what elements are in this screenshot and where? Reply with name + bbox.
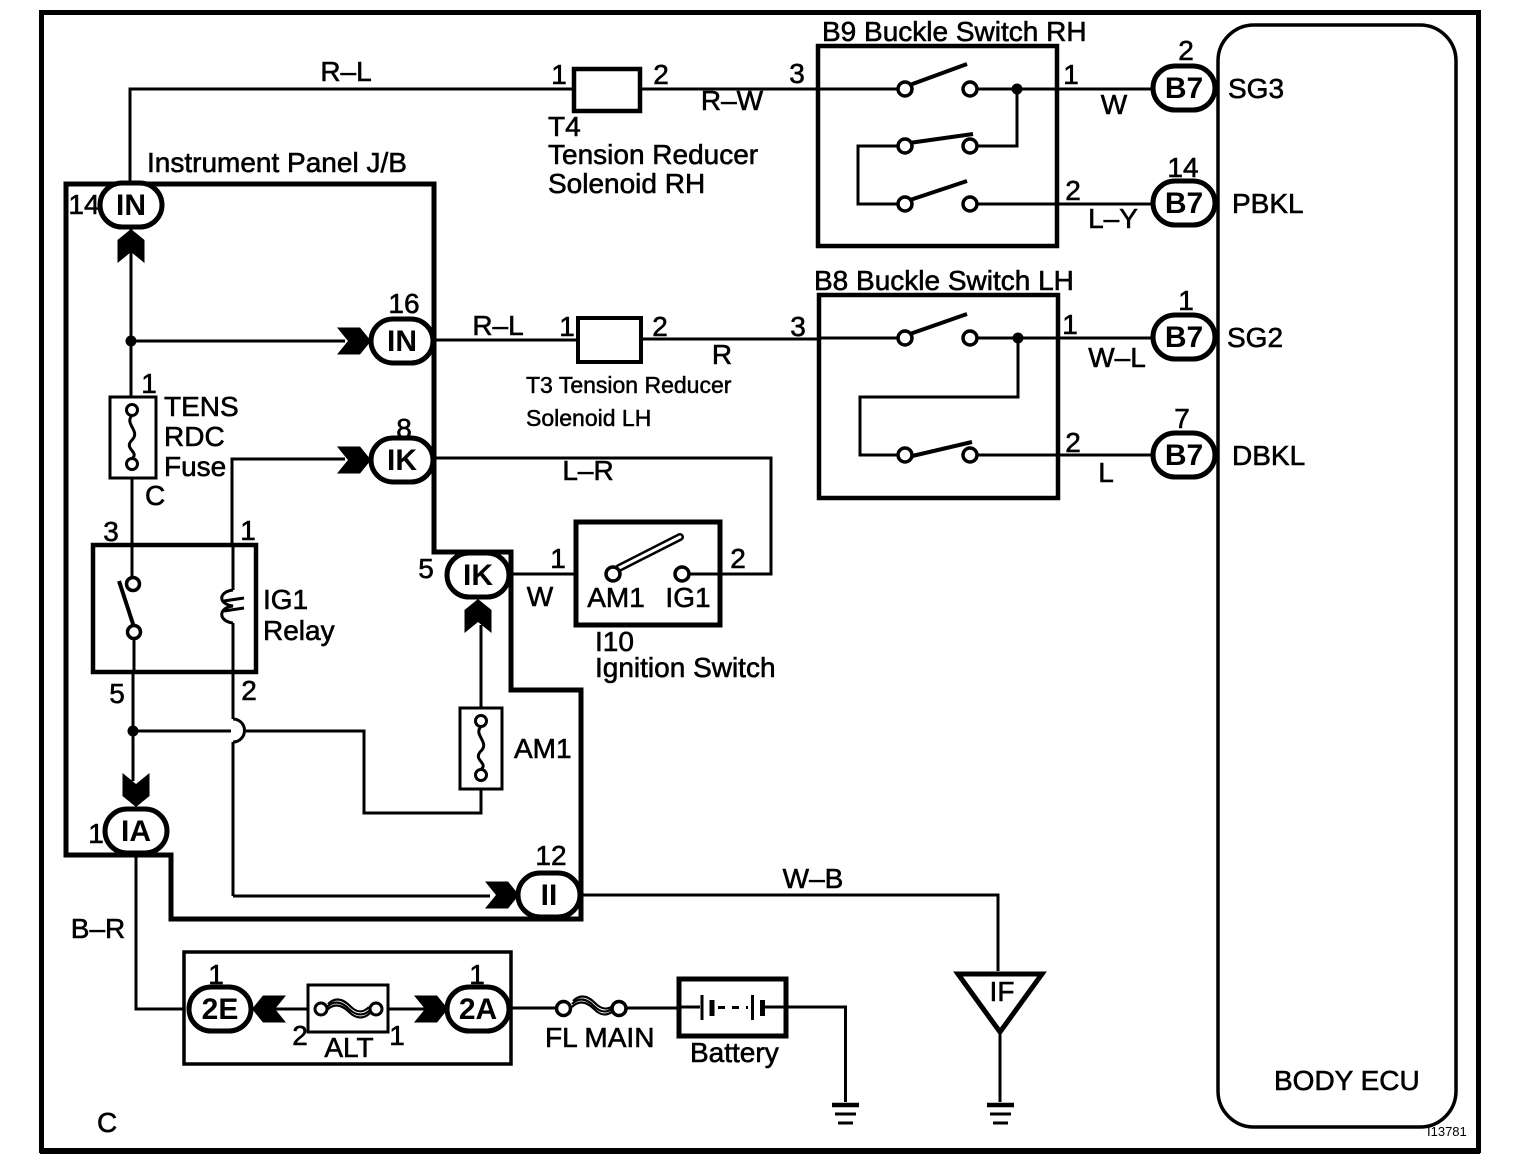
svg-text:2: 2 [653, 59, 669, 90]
svg-text:Relay: Relay [263, 615, 335, 646]
connector IA pin 1 [88, 809, 167, 853]
svg-text:2A: 2A [459, 993, 497, 1026]
connector 2E pin 1 [189, 959, 251, 1031]
svg-text:AM1: AM1 [587, 582, 645, 613]
arrow out of 2E [252, 996, 286, 1023]
svg-text:R–L: R–L [472, 310, 523, 341]
B8 switch row 1 [898, 314, 977, 345]
svg-text:1: 1 [551, 59, 567, 90]
relay IG1 switch contacts [119, 547, 141, 670]
ground IF [987, 1105, 1014, 1123]
svg-text:PBKL: PBKL [1232, 188, 1304, 219]
I10 terminal AM1 [587, 567, 645, 613]
svg-text:12: 12 [535, 840, 566, 871]
svg-text:Fuse: Fuse [164, 451, 226, 482]
wire W-L to B7 SG2 [1062, 309, 1146, 373]
fuse ALT [292, 985, 405, 1063]
svg-text:14: 14 [68, 189, 99, 220]
B9 switch row 1 [898, 64, 977, 96]
wire R-L from IN16 to T3 [433, 310, 578, 341]
svg-text:R–W: R–W [701, 85, 764, 116]
svg-text:B7: B7 [1165, 321, 1203, 354]
connector B7 pin 2 SG3 [1153, 35, 1284, 110]
svg-text:L–Y: L–Y [1088, 203, 1138, 234]
wire L-R from IG1 terminal back to IK8 [435, 455, 771, 574]
solenoid T4 box [548, 59, 758, 199]
svg-text:ALT: ALT [324, 1032, 373, 1063]
wire R-L from IN14 to T4 [130, 56, 574, 183]
svg-text:C: C [97, 1107, 117, 1138]
arrow into IN16 [337, 328, 371, 355]
svg-text:5: 5 [109, 678, 125, 709]
svg-text:B–R: B–R [71, 913, 125, 944]
svg-text:16: 16 [388, 288, 419, 319]
svg-text:2: 2 [730, 543, 746, 574]
wire to II connector [233, 895, 490, 898]
buckle switch B8 box [814, 265, 1074, 498]
junction block Instrument Panel J/B outline [66, 147, 581, 919]
svg-text:B7: B7 [1165, 187, 1203, 220]
battery [679, 979, 786, 1068]
svg-text:Tension Reducer: Tension Reducer [548, 139, 758, 170]
B9 junction node row1 [1012, 84, 1023, 95]
I10 terminal IG1 [665, 567, 710, 613]
wire 2A to FL MAIN [509, 1007, 557, 1010]
connector II pin 12 [518, 840, 580, 917]
svg-text:1: 1 [1062, 309, 1078, 340]
wire W from IK5 to AM1 terminal [509, 543, 607, 612]
B9 switch row 3 [898, 181, 977, 211]
svg-text:SG2: SG2 [1227, 322, 1283, 353]
svg-text:1: 1 [550, 543, 566, 574]
wire W to B7 SG3 [1063, 59, 1128, 120]
ALT fusible link box [184, 952, 511, 1064]
svg-text:SG3: SG3 [1228, 73, 1284, 104]
svg-text:2: 2 [241, 675, 257, 706]
wire FL MAIN to battery [626, 1007, 681, 1010]
svg-text:W: W [527, 581, 554, 612]
B8 internal wires [819, 338, 1151, 455]
svg-text:1: 1 [389, 1020, 405, 1051]
svg-text:TENS: TENS [164, 391, 239, 422]
wire 2E to ALT fuse [250, 1008, 310, 1011]
svg-text:W–B: W–B [783, 863, 844, 894]
wire relay pin 2 with hop over [233, 666, 245, 896]
relay IG1 coil [222, 547, 244, 670]
buckle switch B9 box [818, 16, 1087, 246]
svg-text:IK: IK [387, 444, 417, 477]
svg-text:3: 3 [103, 516, 119, 547]
wire junction to IN16 [131, 340, 345, 343]
arrow into II12 [485, 882, 519, 909]
B9 switch row 2 [898, 134, 977, 153]
svg-text:RDC: RDC [164, 421, 225, 452]
svg-text:DBKL: DBKL [1232, 440, 1305, 471]
svg-text:B7: B7 [1165, 439, 1203, 472]
svg-text:2: 2 [1065, 175, 1081, 206]
svg-text:IK: IK [463, 559, 493, 592]
svg-text:T4: T4 [548, 111, 581, 142]
connector 2A pin 1 [447, 959, 509, 1031]
connector IN pin 14 [68, 183, 162, 227]
svg-text:BODY ECU: BODY ECU [1274, 1065, 1420, 1096]
svg-text:1: 1 [141, 368, 157, 399]
svg-text:IF: IF [990, 976, 1015, 1007]
wire node right and down to AM1 fuse [137, 731, 481, 813]
svg-text:2: 2 [1065, 427, 1081, 458]
svg-text:IG1: IG1 [263, 584, 308, 615]
wire node down to IA [132, 731, 135, 781]
wire B-R from IA to 2E [71, 855, 189, 1009]
svg-text:R–L: R–L [320, 56, 371, 87]
svg-text:I13781: I13781 [1427, 1124, 1467, 1139]
wire relay pin 5 to node [132, 666, 135, 731]
switch I10 ignition box [576, 522, 776, 683]
arrow into IA [123, 773, 150, 807]
wire L to B7 DBKL [1065, 427, 1114, 488]
connector IK pin 5 [418, 553, 509, 597]
fusible link FL MAIN [545, 997, 654, 1053]
svg-text:FL MAIN: FL MAIN [545, 1022, 654, 1053]
ground battery [832, 1105, 859, 1123]
arrow into 2A [414, 996, 448, 1023]
svg-text:R: R [712, 339, 732, 370]
wire IN14 down to junction node [130, 229, 133, 341]
figure number I13781 [1427, 1124, 1467, 1139]
svg-text:AM1: AM1 [514, 733, 572, 764]
arrow into IK8 [337, 447, 371, 474]
svg-text:B8 Buckle Switch LH: B8 Buckle Switch LH [814, 265, 1074, 296]
I10 switch lever [619, 537, 680, 568]
svg-text:Solenoid RH: Solenoid RH [548, 168, 705, 199]
svg-text:Ignition Switch: Ignition Switch [595, 652, 776, 683]
ECU U1 BODY ECU box [1218, 25, 1456, 1127]
svg-text:B9 Buckle Switch RH: B9 Buckle Switch RH [822, 16, 1087, 47]
svg-text:T3 Tension Reducer: T3 Tension Reducer [526, 372, 732, 398]
svg-text:14: 14 [1167, 152, 1198, 183]
svg-text:1: 1 [1063, 59, 1079, 90]
wire W-B from II to IF [580, 863, 998, 971]
svg-text:C: C [145, 480, 165, 511]
wire ALT fuse to 2A [386, 1008, 448, 1011]
svg-text:B7: B7 [1165, 72, 1203, 105]
svg-text:1: 1 [88, 818, 104, 849]
B8 switch row 2 [898, 442, 977, 462]
node relay pin5 [128, 726, 139, 737]
svg-text:Instrument Panel J/B: Instrument Panel J/B [147, 147, 407, 178]
svg-text:1: 1 [559, 311, 575, 342]
connector B7 pin 7 DBKL [1153, 403, 1305, 477]
svg-text:IA: IA [121, 815, 151, 848]
svg-text:2: 2 [1178, 35, 1194, 66]
svg-text:3: 3 [790, 311, 806, 342]
svg-text:5: 5 [418, 553, 434, 584]
svg-text:Battery: Battery [690, 1037, 779, 1068]
B8 junction node row1 [1013, 333, 1024, 344]
svg-text:Solenoid LH: Solenoid LH [526, 405, 651, 431]
wire relay pin 1 to IK8 [232, 459, 345, 547]
node at TENS tap [126, 336, 137, 347]
wire R from T3 to B8 pin 3 [641, 311, 819, 370]
svg-text:3: 3 [789, 58, 805, 89]
fuse TENS RDC [110, 368, 239, 511]
svg-text:2E: 2E [202, 993, 239, 1026]
svg-text:W: W [1101, 89, 1128, 120]
svg-text:W–L: W–L [1088, 342, 1146, 373]
relay IG1 box [93, 515, 335, 709]
svg-text:IG1: IG1 [665, 582, 710, 613]
wire IF to ground [999, 1032, 1002, 1102]
connector IN pin 16 [371, 288, 433, 363]
connector B7 pin 1 SG2 [1153, 285, 1283, 359]
svg-text:IN: IN [116, 189, 146, 222]
connector IK pin 8 [371, 413, 433, 482]
svg-text:1: 1 [1178, 285, 1194, 316]
svg-text:IN: IN [387, 325, 417, 358]
wire R-W from T4 to B9 pin 3 [640, 58, 818, 116]
solenoid T3 box [526, 311, 732, 431]
wire junction down to TENS fuse [130, 341, 133, 404]
wire L-Y to B7 PBKL [1065, 175, 1138, 234]
svg-text:L: L [1098, 457, 1114, 488]
svg-text:L–R: L–R [562, 455, 613, 486]
page letter C [97, 1107, 117, 1138]
svg-text:1: 1 [469, 959, 485, 990]
arrow into IN14 [118, 229, 145, 263]
wire AM1 fuse up to IK5 [480, 625, 483, 712]
svg-text:1: 1 [208, 959, 224, 990]
wire TENS fuse to relay pin 3 [131, 468, 134, 551]
noise filter IF [958, 974, 1042, 1032]
svg-text:8: 8 [396, 413, 412, 444]
svg-text:7: 7 [1174, 403, 1190, 434]
svg-text:2: 2 [652, 311, 668, 342]
svg-text:II: II [541, 879, 558, 912]
fuse AM1 [460, 708, 572, 789]
connector B7 pin 14 PBKL [1153, 152, 1304, 225]
wire battery to ground [786, 1007, 846, 1102]
arrow into IK5 [465, 599, 492, 633]
svg-text:2: 2 [292, 1020, 308, 1051]
B9 internal wires [818, 89, 1151, 204]
svg-text:1: 1 [240, 515, 256, 546]
